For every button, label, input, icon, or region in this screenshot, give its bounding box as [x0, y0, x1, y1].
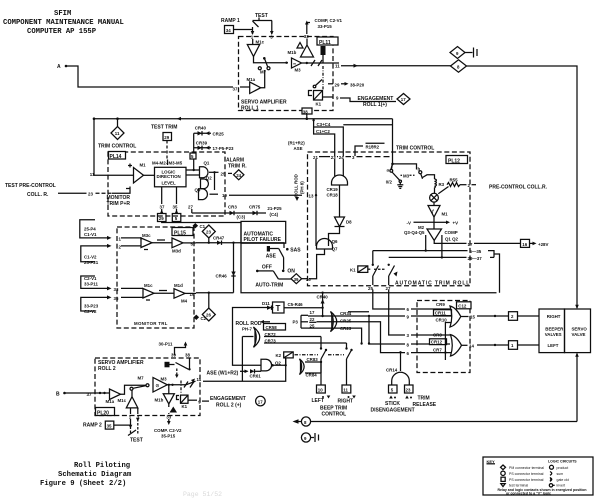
legend row: PS connector circle — [501, 471, 505, 475]
pins 6 9 — [407, 307, 410, 320]
svg-text:25: 25 — [368, 286, 373, 291]
svg-text:C1-V1: C1-V1 — [84, 232, 97, 237]
svg-text:COLL. R.: COLL. R. — [27, 192, 49, 198]
svg-text:sum: sum — [557, 472, 564, 476]
AND gate Q2 — [201, 176, 213, 189]
svg-text:ASE: ASE — [266, 253, 277, 259]
OR gate lower c12 — [411, 335, 462, 360]
diamond terminal 39 — [291, 274, 311, 284]
svg-text:37: 37 — [233, 87, 238, 92]
svg-text:SAS: SAS — [290, 248, 301, 254]
svg-text:PL11: PL11 — [319, 40, 331, 46]
svg-text:RAMP 2: RAMP 2 — [83, 423, 102, 429]
box PL12 — [308, 152, 471, 286]
ASE (W1+R2) input — [207, 369, 262, 378]
svg-text:22: 22 — [310, 317, 315, 322]
delta symbol roll2 — [169, 404, 177, 413]
terminal diamond 17 roll1 — [397, 94, 410, 105]
PL11 label — [317, 37, 338, 46]
PL20 label — [96, 408, 115, 417]
wire K1 to pin 9 — [323, 96, 334, 98]
svg-text:11: 11 — [115, 131, 120, 136]
delta symbol with hatch — [297, 43, 303, 49]
svg-text:COMP. C2-V2: COMP. C2-V2 — [154, 428, 182, 433]
wire 27 to 21-P25 with diodes CR3 CR75 — [192, 205, 282, 220]
svg-text:M3c: M3c — [142, 233, 151, 238]
svg-text:TRIM: TRIM — [418, 396, 430, 402]
wire 22 to jog 380 — [317, 322, 406, 353]
terminal circle 9 bottom with ground — [301, 433, 318, 442]
svg-text:C2-V1: C2-V1 — [84, 276, 97, 281]
title block — [3, 10, 124, 36]
diamond terminal 23 / C1 — [193, 223, 216, 244]
op-amp M3d — [152, 238, 196, 254]
svg-text:8: 8 — [304, 420, 307, 425]
wire test to pin 1 — [251, 27, 255, 35]
svg-text:M3: M3 — [403, 173, 410, 178]
op-amp M1 pl14 — [126, 163, 146, 189]
svg-text:RIGHT: RIGHT — [338, 399, 354, 405]
PL12 label — [446, 156, 468, 165]
svg-text:PS connector terminal: PS connector terminal — [509, 478, 544, 482]
automatic pilot failure label box — [241, 221, 286, 243]
svg-text:PL14: PL14 — [110, 154, 122, 160]
svg-text:CR25: CR25 — [340, 318, 352, 323]
OR gate roll rod — [254, 327, 260, 347]
beep switch right — [328, 343, 353, 385]
svg-text:(C3): (C3) — [237, 215, 246, 220]
wire CR72 — [264, 332, 321, 337]
wire pin 9 to engagement roll 2 — [202, 400, 209, 402]
svg-text:2: 2 — [511, 314, 514, 319]
svg-text:VALVE: VALVE — [572, 332, 586, 337]
svg-text:gate ckt: gate ckt — [557, 478, 569, 482]
CR58 box — [264, 324, 286, 331]
svg-text:MONITOR TRL: MONITOR TRL — [134, 321, 168, 326]
svg-text:DIRECTION: DIRECTION — [157, 174, 181, 179]
stick disengagement label — [371, 401, 415, 414]
terminal squares 29 and 5 — [158, 209, 181, 222]
pins 25 27 — [368, 286, 391, 291]
svg-text:Q2: Q2 — [275, 361, 281, 366]
contact M7 roll2 — [130, 376, 149, 391]
svg-text:+V: +V — [453, 220, 459, 225]
svg-text:LEFT: LEFT — [548, 343, 559, 348]
svg-text:33: 33 — [304, 34, 309, 39]
svg-text:39: 39 — [171, 353, 176, 358]
wire to T box and gate Q2 — [233, 308, 274, 366]
svg-text:ASE: ASE — [294, 146, 303, 151]
diode D8 — [335, 217, 353, 227]
svg-text:TRIM P+R: TRIM P+R — [107, 201, 131, 207]
svg-text:29: 29 — [335, 83, 340, 88]
svg-text:SERVO: SERVO — [572, 327, 588, 332]
svg-text:A: A — [57, 64, 61, 70]
gate Q6 Q7 — [317, 239, 339, 252]
label 30-P11 — [159, 342, 188, 356]
svg-text:C1-V2: C1-V2 — [84, 255, 97, 260]
svg-text:11: 11 — [197, 377, 202, 382]
svg-text:39: 39 — [294, 277, 299, 282]
op-amp M3 roll2 — [153, 377, 167, 393]
svg-text:23: 23 — [406, 388, 411, 393]
svg-text:CR9: CR9 — [436, 302, 445, 307]
svg-text:D8: D8 — [346, 220, 352, 225]
RAMP 2 terminal 35 — [83, 419, 131, 429]
svg-text:23: 23 — [331, 155, 336, 160]
svg-text:CR12: CR12 — [431, 340, 443, 345]
svg-text:16: 16 — [306, 277, 311, 282]
switch OFF/ON auto-trim — [255, 265, 295, 289]
svg-text:LEFT: LEFT — [312, 398, 325, 404]
svg-text:6: 6 — [407, 351, 410, 356]
svg-text:COMPUTER AP 155P: COMPUTER AP 155P — [27, 28, 97, 36]
svg-text:K1: K1 — [316, 102, 322, 107]
svg-text:M1c: M1c — [256, 40, 265, 45]
svg-text:DISENGAGEMENT: DISENGAGEMENT — [371, 408, 415, 414]
svg-text:Figure 9 (Sheet 2/2): Figure 9 (Sheet 2/2) — [40, 480, 126, 488]
op-amp M1b roll2 — [155, 385, 175, 404]
0/2 ground — [386, 179, 404, 188]
wire 29 to 38-P20 — [313, 80, 365, 88]
svg-text:19: 19 — [190, 292, 195, 297]
svg-text:21-P25: 21-P25 — [267, 206, 282, 211]
wire C1+C2 — [314, 127, 335, 157]
rail drop right side into PL12 switch — [391, 119, 393, 170]
svg-text:TRIM CONTROL: TRIM CONTROL — [396, 146, 434, 152]
wire pin33 up to comp label — [307, 23, 310, 35]
svg-text:M3: M3 — [295, 68, 302, 73]
Q1 output to diamond 24 — [209, 171, 232, 190]
svg-text:PL15: PL15 — [174, 231, 186, 237]
wire C3+C4 — [314, 120, 393, 156]
svg-text:CR61: CR61 — [250, 374, 262, 379]
svg-text:11: 11 — [343, 388, 348, 393]
wire pin11 to right rail — [341, 65, 451, 67]
wire Q7 to pin 16 — [309, 249, 325, 279]
horizontal rail y=118.7 — [94, 118, 393, 120]
svg-text:23: 23 — [88, 192, 93, 197]
TEST terminal roll1 — [253, 13, 273, 21]
input bracket 2 — [81, 244, 122, 265]
svg-text:33-P11: 33-P11 — [84, 282, 98, 287]
diode CR47 — [213, 236, 225, 245]
svg-text:1: 1 — [119, 236, 122, 241]
svg-text:RAMP 1: RAMP 1 — [221, 18, 240, 24]
figure caption — [40, 462, 132, 488]
svg-text:27: 27 — [386, 286, 391, 291]
svg-text:ROLL 2: ROLL 2 — [98, 366, 116, 372]
servo amplifier roll 1 box PL11 — [239, 37, 334, 111]
svg-text:PILOT FAILURE: PILOT FAILURE — [244, 237, 282, 243]
legend row: PM connector diamond — [501, 465, 506, 470]
svg-text:33: 33 — [114, 287, 119, 292]
wire from A to pin 37 — [66, 66, 233, 87]
diodes CR9 CR11 CR10 — [434, 302, 452, 322]
diode CR14 arch — [386, 351, 409, 385]
relay K1 roll1 — [309, 91, 323, 107]
svg-text:CR75: CR75 — [249, 205, 261, 210]
beeper valves box — [539, 309, 565, 353]
output 15 to square 2 — [461, 312, 539, 321]
svg-text:C2: C2 — [201, 316, 207, 321]
box PL14 — [108, 152, 225, 216]
label engagement roll 1 — [358, 96, 394, 108]
wire pin1 to M1c — [252, 39, 254, 44]
svg-text:11: 11 — [90, 172, 95, 177]
test trim terminal 29 — [151, 125, 177, 160]
box PL15 — [117, 227, 194, 328]
svg-text:STICK: STICK — [385, 401, 400, 407]
svg-text:15: 15 — [470, 314, 475, 319]
input bracket 4 — [81, 295, 119, 314]
svg-text:Roll Piloting: Roll Piloting — [74, 462, 130, 470]
svg-text:CR10: CR10 — [436, 317, 448, 322]
left right labels — [312, 398, 354, 418]
svg-text:product: product — [557, 466, 569, 470]
svg-text:Q1 Q2: Q1 Q2 — [445, 237, 458, 242]
svg-text:34: 34 — [226, 28, 231, 33]
wire 17 to pin 9 of C12 — [308, 315, 369, 317]
svg-text:TRIM CONTROL: TRIM CONTROL — [98, 144, 136, 150]
svg-text:ƒ: ƒ — [432, 209, 435, 214]
svg-text:(PH 8): (PH 8) — [300, 181, 305, 194]
contact slashes on rail — [311, 60, 315, 66]
svg-text:11: 11 — [335, 64, 340, 69]
comparator M2 Q3-Q4-Q5 — [404, 225, 458, 242]
relay K2 — [276, 352, 319, 358]
test switch lever — [253, 21, 259, 27]
svg-text:TRIM R.: TRIM R. — [228, 164, 247, 170]
pins 3 8 6 — [407, 333, 410, 356]
wire to pin 33 — [154, 413, 182, 438]
AND gate Q4 — [195, 187, 208, 199]
svg-text:13: 13 — [309, 194, 314, 199]
svg-text:5: 5 — [391, 388, 394, 393]
wire CR40 down to pin 5 — [193, 133, 195, 171]
svg-text:35: 35 — [114, 296, 119, 301]
svg-text:R3: R3 — [439, 182, 445, 187]
svg-text:KEY: KEY — [487, 459, 496, 464]
engagement roll 2 label — [210, 396, 246, 409]
svg-text:9: 9 — [407, 315, 410, 320]
svg-text:PRE-CONTROL COLL.R.: PRE-CONTROL COLL.R. — [489, 185, 548, 191]
vertical junction to pin 8 — [369, 316, 405, 344]
svg-text:ROLL ROD: ROLL ROD — [294, 174, 299, 197]
legend right: invert — [549, 484, 552, 487]
svg-text:⊙: ⊙ — [156, 383, 160, 388]
op-amp M3 roll1 — [292, 58, 302, 73]
svg-text:Q3-Q4-Q5: Q3-Q4-Q5 — [404, 230, 425, 235]
node A input — [57, 64, 67, 70]
switch M3 pl12 contact a — [387, 163, 400, 181]
svg-text:CR46: CR46 — [216, 274, 228, 279]
svg-text:C5-R46: C5-R46 — [288, 302, 304, 307]
svg-text:CR39: CR39 — [196, 140, 208, 145]
svg-text:ROLL 1(+): ROLL 1(+) — [363, 102, 387, 108]
svg-text:8: 8 — [407, 342, 410, 347]
wire 25 to jog 361 — [308, 328, 362, 343]
AND gate Q1 — [186, 160, 210, 178]
diode CR40 vertical — [317, 292, 329, 318]
pin chain 21 23 24 3 — [313, 155, 390, 160]
roll rod ph-7 label — [236, 320, 271, 332]
svg-text:AUTOMATIC TRIM ROLL: AUTOMATIC TRIM ROLL — [395, 281, 470, 287]
beep switch left — [320, 337, 327, 386]
svg-text:ENGAGEMENT: ENGAGEMENT — [210, 396, 246, 402]
svg-text:COMP: COMP — [445, 230, 458, 235]
svg-text:Q7: Q7 — [332, 247, 338, 252]
diode CR40 / CR25 net — [194, 125, 225, 136]
R1.R2 label with overline — [355, 143, 385, 156]
svg-text:VALVES: VALVES — [545, 332, 562, 337]
svg-text:CR18: CR18 — [327, 193, 339, 198]
svg-text:9: 9 — [336, 96, 339, 101]
TEST terminal roll2 — [128, 418, 143, 444]
wire pin 9 to engagement — [340, 98, 396, 102]
svg-text:M1b: M1b — [288, 50, 297, 55]
svg-text:C12: C12 — [458, 304, 467, 309]
svg-text:0/2: 0/2 — [386, 179, 393, 184]
svg-text:ON: ON — [287, 268, 295, 274]
pins 1 3 bottom — [129, 408, 140, 419]
svg-text:1: 1 — [251, 35, 254, 40]
relay K1 pl12 — [350, 266, 386, 273]
svg-text:Q6: Q6 — [332, 239, 338, 244]
diode CR46 vertical — [216, 242, 236, 293]
wire M1a up to M7 — [261, 70, 265, 88]
arrow on trim rail — [177, 117, 182, 121]
svg-text:CR58: CR58 — [266, 325, 278, 330]
node B input — [56, 392, 109, 398]
svg-text:27: 27 — [188, 205, 193, 210]
terminal diamond 8 top — [451, 60, 467, 72]
svg-text:K1: K1 — [350, 267, 356, 272]
input bracket 1 — [80, 220, 122, 242]
contact M7 — [258, 57, 270, 75]
svg-text:38: 38 — [303, 110, 308, 115]
wire ramp1 to pin 1 — [234, 29, 253, 31]
squares 5 and 23 stick/trim — [389, 385, 414, 399]
svg-text:5: 5 — [175, 216, 178, 221]
svg-text:D11: D11 — [262, 301, 270, 306]
svg-text:(C4): (C4) — [270, 212, 279, 217]
resistor hatched near pin 11 — [321, 46, 326, 63]
op-amp M1a roll1 — [247, 77, 261, 94]
diode CR39 / 17-P5-P23 net — [194, 140, 234, 151]
lamp — [430, 188, 439, 203]
svg-text:PL12: PL12 — [448, 159, 460, 165]
wire D8 to Q6 — [329, 227, 340, 247]
bottom rail wire — [311, 421, 578, 423]
svg-text:RIGHT: RIGHT — [547, 314, 561, 319]
svg-text:38-P20: 38-P20 — [350, 82, 365, 87]
svg-text:29: 29 — [164, 135, 169, 140]
wire CR34 output — [348, 311, 369, 313]
wire gate to D8 — [339, 185, 341, 217]
wire 5-35 — [373, 235, 500, 293]
switch SAS/ASE — [266, 246, 302, 270]
resistor R55 — [447, 178, 548, 191]
svg-text:CR23: CR23 — [340, 326, 352, 331]
svg-text:M1c: M1c — [118, 398, 127, 403]
svg-text:M3-M5: M3-M5 — [169, 160, 183, 165]
P3 bracket 17 22 25 — [293, 310, 317, 329]
op-amp M1c roll2 — [118, 390, 138, 408]
gate CR34 CR25 CR23 — [331, 311, 352, 332]
svg-text:Q4: Q4 — [195, 187, 201, 192]
wire pin11 to M1 — [94, 174, 134, 176]
PL14 label — [109, 152, 126, 161]
terminal diamond 9 top with ground — [450, 47, 477, 59]
gate CR19 CR18 — [327, 159, 348, 198]
svg-text:35: 35 — [173, 205, 178, 210]
svg-text:25-P21: 25-P21 — [84, 260, 99, 265]
switch at top of PL20 — [165, 359, 191, 379]
wire T to CR40 vertical — [284, 307, 323, 309]
box PL20 — [95, 358, 200, 416]
contact 25 — [372, 251, 405, 309]
wire pin5 to CR46 junction and SAS — [196, 243, 284, 248]
trim release label — [413, 396, 437, 409]
svg-text:24: 24 — [236, 173, 241, 178]
svg-text:SFIM: SFIM — [54, 10, 71, 18]
switch M3 label and b contact — [393, 164, 423, 179]
svg-text:PS connector terminal: PS connector terminal — [509, 472, 544, 476]
svg-text:25-P4: 25-P4 — [84, 227, 96, 232]
svg-text:COMP, C2-V1: COMP, C2-V1 — [315, 18, 343, 23]
servo valve box — [565, 309, 591, 353]
svg-text:9: 9 — [456, 51, 459, 56]
svg-text:M1c: M1c — [144, 283, 153, 288]
trim control diamond 11 — [98, 117, 136, 149]
svg-text:PM connector terminal: PM connector terminal — [509, 466, 544, 470]
test pre-control input — [5, 183, 130, 198]
svg-text:Page 51/52: Page 51/52 — [183, 491, 222, 498]
diagonal wire R55 to lamp — [438, 187, 448, 194]
svg-text:5: 5 — [191, 241, 194, 246]
terminal circle 17 roll2 — [256, 396, 266, 406]
svg-text:P3: P3 — [293, 320, 299, 325]
op-amp M1 pl12 — [428, 202, 448, 217]
svg-text:M4-M2-: M4-M2- — [152, 160, 168, 165]
svg-text:16: 16 — [522, 242, 527, 247]
svg-text:C2-V2: C2-V2 — [84, 309, 97, 314]
svg-text:TEST: TEST — [130, 438, 143, 444]
svg-text:CR14: CR14 — [386, 368, 398, 373]
AND gate Q2 beep — [261, 358, 286, 371]
right rail down — [467, 66, 578, 308]
roll rod ph8 vertical label — [294, 174, 305, 201]
box C12 — [417, 301, 470, 373]
monitor trim label — [107, 195, 131, 207]
svg-text:LEVEL: LEVEL — [162, 181, 176, 186]
svg-text:+28V: +28V — [538, 242, 548, 247]
svg-text:9: 9 — [198, 399, 201, 404]
svg-text:26: 26 — [206, 313, 211, 318]
svg-text:35-P15: 35-P15 — [161, 433, 176, 438]
svg-text:30-P11: 30-P11 — [159, 342, 173, 347]
svg-text:23: 23 — [206, 230, 211, 235]
wire from squares 29/5 to long rail — [162, 222, 497, 293]
svg-text:∞: ∞ — [293, 61, 296, 66]
svg-text:TEST: TEST — [255, 13, 268, 19]
PL15 label — [172, 228, 193, 237]
svg-text:RELEASE: RELEASE — [413, 402, 437, 408]
svg-text:K2: K2 — [276, 353, 282, 358]
op-amp M1a roll2 — [106, 389, 121, 404]
svg-text:M7: M7 — [260, 70, 267, 75]
